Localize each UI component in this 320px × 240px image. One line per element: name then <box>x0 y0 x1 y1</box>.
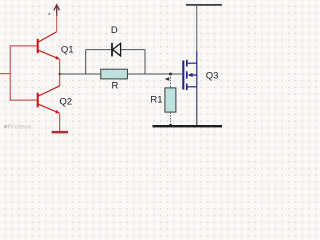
bottom ground rail <box>153 125 223 127</box>
svg-text:Q2: Q2 <box>59 97 72 108</box>
svg-text:R1: R1 <box>150 94 162 105</box>
wire: R1 bottom lead <box>170 112 172 125</box>
wire: source lead to ground rail <box>196 87 198 126</box>
ground bar (red terminal) <box>52 131 69 134</box>
transistor Q2 <box>38 86 60 114</box>
junction dot R1 tap <box>169 73 172 76</box>
wire: to Q2 base <box>10 99 37 101</box>
wire: drain lead from rail <box>196 5 198 52</box>
resistor R <box>101 69 128 79</box>
power terminal arrow (top) <box>54 5 60 16</box>
diode D <box>112 43 121 57</box>
svg-text:■Proteus: ■Proteus <box>4 124 32 131</box>
wire: diode branch left vertical <box>85 50 87 74</box>
transistor Q1 <box>38 32 60 60</box>
mosfet Q3 <box>183 52 197 91</box>
wire: R1 top lead <box>170 74 172 88</box>
wire: diode right lead <box>121 49 145 51</box>
junction dot <box>59 73 61 75</box>
wire: to Q1 base <box>10 45 37 47</box>
wire: left vertical bus <box>9 46 11 100</box>
svg-text:R: R <box>112 81 119 92</box>
small arrow marker <box>165 77 170 81</box>
wire: power to Q1 collector <box>56 15 58 32</box>
power terminal tick <box>48 13 50 15</box>
svg-text:Q3: Q3 <box>206 70 219 81</box>
wire: diode branch right vertical <box>144 50 146 74</box>
node: input stub wire (left edge) <box>0 73 10 75</box>
wire: Q1 emitter to Q2 collector <box>59 59 61 86</box>
wire: diode left lead <box>86 49 112 51</box>
top power rail <box>186 4 222 6</box>
junction dot R1 ground <box>169 124 172 127</box>
wire: Q2 emitter down <box>59 113 61 131</box>
wire: main horizontal net <box>60 73 182 75</box>
svg-text:D: D <box>111 25 118 36</box>
resistor R1 <box>165 88 176 112</box>
svg-text:Q1: Q1 <box>61 45 74 56</box>
